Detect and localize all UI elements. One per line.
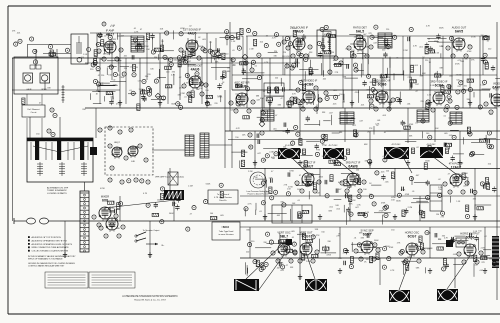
additional value annotations: [100, 28, 499, 272]
wire left IF drop 2: [111, 38, 113, 80]
resistor R101: [370, 256, 373, 263]
resistor R18: [137, 104, 140, 111]
svg-text:1.5K: 1.5K: [351, 200, 356, 202]
blob side resistor F: [346, 149, 349, 155]
resistor R19: [190, 78, 193, 85]
wire segment V4: [179, 58, 181, 100]
resistor R44: [485, 63, 488, 70]
svg-text:.047: .047: [300, 145, 304, 147]
resistor R29: [441, 86, 444, 93]
capacitor C11: [149, 88, 151, 92]
terminal E201: [343, 156, 347, 160]
svg-text:560K: 560K: [206, 183, 211, 185]
svg-text:220: 220: [386, 29, 389, 31]
svg-text:2.2M: 2.2M: [269, 152, 274, 154]
terminal E130: [376, 96, 380, 100]
capacitor C2: [217, 85, 221, 87]
terminal E107: [122, 72, 126, 76]
terminal E77: [92, 215, 96, 219]
svg-text:470K: 470K: [180, 28, 185, 30]
svg-text:2.2M: 2.2M: [249, 48, 254, 50]
capacitor C67: [445, 264, 449, 266]
terminal E93: [176, 102, 180, 106]
terminal E11: [291, 54, 295, 58]
svg-text:4.7K: 4.7K: [426, 25, 431, 27]
wire vert section bus: [240, 257, 500, 259]
speaker can 2: [40, 73, 50, 83]
capacitor C21: [346, 64, 348, 68]
wire picture IF bus: [240, 168, 500, 170]
capacitor C8: [150, 35, 154, 37]
svg-text:.047: .047: [355, 207, 359, 209]
resistor R113: [108, 201, 115, 204]
svg-text:220: 220: [246, 251, 249, 253]
svg-text:1.5K: 1.5K: [83, 54, 88, 56]
capacitor C31: [295, 59, 297, 63]
tuner pictorial caption: [47, 187, 69, 195]
terminal E147: [246, 29, 250, 33]
terminal E144: [462, 89, 466, 93]
resistor R42: [287, 102, 294, 105]
wire segment V14: [351, 58, 353, 108]
wire segment V8: [246, 36, 248, 108]
vacuum tube V20 6X8: [99, 195, 111, 221]
resistor R82: [358, 212, 365, 215]
wire IF strip drop 7: [362, 36, 364, 75]
terminal E150: [230, 36, 234, 40]
svg-text:330: 330: [107, 94, 110, 96]
terminal E72: [417, 259, 421, 263]
tuner interior terminals: [108, 144, 148, 170]
terminal E180: [288, 42, 292, 46]
CRT socket terminal strip: [80, 182, 89, 252]
wire segment V26: [434, 108, 436, 142]
capacitor C24: [318, 53, 322, 55]
resistor R76: [466, 205, 469, 212]
capacitor C14: [212, 55, 216, 57]
resistor R2: [178, 60, 181, 67]
ground G16: [319, 214, 321, 217]
terminal E148: [285, 36, 289, 40]
terminal E18: [468, 45, 472, 49]
ground G8: [429, 100, 431, 103]
svg-text:.047: .047: [257, 153, 261, 155]
terminal E172: [447, 84, 451, 88]
resistor R31: [425, 47, 428, 54]
terminal E233: [261, 201, 265, 205]
wire segment V34: [64, 221, 66, 258]
tuner output terminals: [98, 126, 133, 134]
coil can L32: [286, 239, 292, 245]
terminal E226: [363, 213, 367, 217]
svg-text:.005: .005: [291, 231, 295, 233]
svg-text:Howard W. Sams & Co., Inc. 195: Howard W. Sams & Co., Inc. 1957: [134, 298, 166, 301]
terminal E5: [179, 48, 183, 52]
resistor R103: [302, 233, 305, 240]
svg-text:560K: 560K: [407, 257, 412, 259]
resistor R57: [324, 134, 327, 141]
terminal E66: [376, 248, 380, 252]
wire segment V1: [119, 33, 121, 108]
wire segment V9: [269, 58, 271, 131]
capacitor C48: [283, 123, 285, 127]
capacitor C29: [302, 35, 306, 37]
svg-text:6CG7: 6CG7: [408, 235, 417, 239]
terminal E252: [311, 235, 315, 239]
terminal E124: [91, 63, 95, 67]
capacitor C27: [242, 70, 246, 72]
svg-text:1.5K: 1.5K: [329, 181, 334, 183]
wire left IF drop 3: [125, 58, 127, 104]
svg-text:.001: .001: [123, 56, 127, 58]
svg-text:6CB6: 6CB6: [305, 83, 314, 87]
terminal E185: [249, 145, 253, 149]
capacitor C5: [131, 55, 133, 59]
terminal E80: [110, 223, 114, 227]
terminal E197: [320, 139, 324, 143]
resistor R11: [94, 59, 97, 66]
svg-text:4.7K: 4.7K: [390, 270, 395, 272]
terminal E207: [321, 134, 325, 138]
wire IF strip drop 6: [342, 58, 344, 108]
resistor R88: [286, 249, 293, 252]
svg-text:.005: .005: [444, 133, 448, 135]
resistor R90: [437, 247, 444, 250]
peaking coil can L30: [446, 240, 453, 247]
resistor R26: [329, 35, 336, 38]
terminal E247: [400, 249, 404, 253]
wire IF strip drop 8: [382, 58, 384, 108]
terminal E47: [300, 189, 304, 193]
svg-text:2.2M: 2.2M: [180, 93, 185, 95]
wire IF strip drop 2: [261, 58, 263, 108]
note box: junction A: [208, 190, 238, 204]
wire IF strip drop 1: [242, 36, 244, 75]
resistor R13: [94, 50, 97, 57]
wire sync bus: [240, 226, 500, 228]
terminal E270: [65, 48, 69, 52]
terminal E63: [298, 259, 302, 263]
terminal E103: [183, 60, 187, 64]
wire antenna downlead: [12, 58, 14, 221]
ground G5: [299, 102, 301, 105]
terminal E111: [146, 87, 150, 91]
wire left IF drop 5: [167, 58, 169, 104]
speaker can 1: [23, 73, 33, 83]
terminal E81: [99, 226, 103, 230]
ground G19: [299, 274, 301, 277]
blob side resistor G: [411, 148, 414, 154]
terminal E48: [313, 189, 317, 193]
svg-text:2.2M: 2.2M: [244, 86, 249, 88]
terminal E114: [195, 72, 199, 76]
terminal E245: [383, 247, 387, 251]
terminal E92: [105, 44, 109, 48]
capacitor C43: [487, 139, 489, 143]
capacitor C45: [298, 149, 300, 153]
filament choke winding: [62, 85, 65, 103]
terminal E249: [442, 267, 446, 271]
svg-text:1.5K: 1.5K: [430, 85, 435, 87]
capacitor C23: [448, 85, 450, 89]
waveform leader line 2: [258, 255, 284, 291]
svg-text:2.2M: 2.2M: [480, 85, 485, 87]
svg-text:470K: 470K: [101, 209, 106, 211]
wire segment V49: [59, 117, 61, 138]
vacuum tube V13 6AW8: [346, 161, 361, 187]
resistor R14: [147, 33, 150, 40]
capacitor C40: [256, 134, 258, 138]
svg-text:ADJUSTED OPERATING LEVEL SOCKE: ADJUSTED OPERATING LEVEL SOCKETS: [32, 243, 73, 246]
svg-text:4.7K: 4.7K: [171, 74, 176, 76]
terminal E153: [393, 35, 397, 39]
terminal E155: [326, 33, 330, 37]
svg-text:470K: 470K: [294, 62, 299, 64]
svg-text:.02: .02: [198, 37, 201, 39]
converter plate coil box: [200, 133, 209, 158]
terminal E163: [374, 25, 378, 29]
resistor R104: [350, 257, 353, 264]
svg-text:2.2M: 2.2M: [322, 145, 327, 147]
resistor R37: [428, 50, 435, 53]
resistor R110: [152, 213, 159, 216]
terminal E17: [446, 46, 450, 50]
terminal E143: [468, 88, 472, 92]
svg-text:GROUND IN CHASSIS PHOTOS LOCAT: GROUND IN CHASSIS PHOTOS LOCATED IN PAGE…: [28, 262, 75, 265]
terminal E113: [93, 79, 97, 83]
svg-text:42.25 MC: 42.25 MC: [391, 144, 401, 146]
speaker labels: [27, 88, 48, 91]
terminal E235: [282, 203, 286, 207]
terminal E68: [372, 257, 376, 261]
svg-text:45.75 MC: 45.75 MC: [328, 145, 338, 147]
terminal E151: [257, 53, 261, 57]
resistor R86: [477, 207, 484, 210]
wire IF lower bus: [85, 107, 497, 109]
terminal E195: [265, 154, 269, 158]
terminal E82: [121, 225, 125, 229]
resistor R55: [467, 127, 470, 134]
terminal E211: [375, 171, 379, 175]
wire segment V37: [249, 227, 251, 258]
resistor R63: [479, 139, 486, 142]
IF AMP test point: [102, 22, 106, 26]
terminal E257: [265, 232, 269, 236]
resistor R15: [136, 46, 143, 49]
terminal E274: [192, 206, 196, 210]
terminal E186: [471, 151, 475, 155]
svg-text:Tube Type Used: Tube Type Used: [219, 231, 234, 233]
resistor R114: [210, 216, 217, 219]
capacitor C54: [270, 178, 272, 182]
terminal E179: [483, 53, 487, 57]
terminal E28: [247, 109, 251, 113]
damper cathode component X1: [168, 172, 178, 185]
svg-text:220: 220: [232, 65, 235, 67]
vacuum tube V7 6AU8: [234, 81, 249, 107]
terminal E181: [282, 40, 286, 44]
svg-text:6X8: 6X8: [109, 210, 115, 214]
terminal E96: [208, 49, 212, 53]
terminal E232: [261, 181, 265, 185]
capacitor C68: [278, 262, 280, 266]
tuner osc tube V23: [128, 146, 138, 163]
wire antenna feed bus: [60, 220, 500, 222]
wire segment V38: [299, 227, 301, 280]
sound IF terminals: [244, 61, 358, 72]
svg-text:470K: 470K: [391, 197, 396, 199]
wire segment V42: [454, 258, 456, 288]
terminal E64: [311, 259, 315, 263]
terminal E62: [315, 250, 319, 254]
resistor R102: [312, 254, 319, 257]
terminal E275: [119, 202, 123, 206]
wire segment V20: [479, 36, 481, 108]
terminal E177: [483, 60, 487, 64]
svg-text:2.2M: 2.2M: [188, 186, 193, 188]
svg-text:SPECS OF STANDARD % TOLERANCE: SPECS OF STANDARD % TOLERANCE: [28, 258, 63, 261]
resistor R105: [443, 259, 446, 266]
terminal E29: [296, 99, 300, 103]
IF coupling coil box B: [340, 112, 354, 124]
terminal E45: [295, 181, 299, 185]
terminal E52: [358, 189, 362, 193]
terminal E237: [465, 214, 469, 218]
vacuum tube V14 12AU7: [449, 162, 464, 188]
capacitor C22: [282, 87, 284, 91]
wire AGC bus upper: [85, 62, 300, 64]
resistor R98: [406, 264, 409, 271]
wire segment V22: [299, 108, 301, 143]
svg-text:4.7K: 4.7K: [184, 83, 189, 85]
capacitor C41: [451, 157, 455, 159]
svg-text:.01: .01: [287, 258, 290, 260]
ground G9: [469, 100, 471, 103]
sound take-off coil box: [131, 36, 144, 52]
svg-text:in some Versions: in some Versions: [218, 234, 233, 236]
terminal E187: [428, 135, 432, 139]
terminal E73: [457, 252, 461, 256]
terminal E174: [324, 25, 328, 29]
terminal E9: [286, 46, 290, 50]
svg-text:100: 100: [302, 213, 305, 215]
terminal E60: [289, 259, 293, 263]
schematic title: [122, 295, 178, 301]
CRT socket view (dashed): [246, 172, 269, 196]
waveform leader line 10: [105, 200, 176, 208]
terminal E264: [382, 265, 386, 269]
terminal E79: [97, 223, 101, 227]
terminal E228: [480, 182, 484, 186]
capacitor C52: [381, 176, 385, 178]
terminal E67: [359, 257, 363, 261]
wire segment V50: [95, 108, 97, 138]
terminal E277: [204, 200, 208, 204]
wire sound section bus: [232, 74, 497, 76]
vacuum tube V6 4AU6: [187, 64, 203, 90]
capacitor C49: [401, 121, 405, 123]
terminal E229: [384, 213, 388, 217]
svg-text:470K: 470K: [401, 190, 406, 192]
svg-text:LOCATED IN PARTS: LOCATED IN PARTS: [47, 192, 67, 195]
resistor R100: [420, 243, 423, 250]
width control terminal box L31: [456, 238, 466, 247]
wire left IF drop 8: [215, 38, 217, 80]
svg-text:150: 150: [108, 74, 111, 76]
svg-text:470K: 470K: [455, 64, 460, 66]
svg-text:150: 150: [263, 160, 266, 162]
ground G6: [351, 100, 353, 103]
ground G4: [269, 100, 271, 103]
terminal E261: [264, 262, 268, 266]
terminal E8: [197, 56, 201, 60]
contrast block box: [417, 110, 429, 122]
audio takeoff transformer T1: [71, 34, 91, 64]
terminal E216: [325, 194, 329, 198]
resistor R16: [165, 85, 172, 88]
resistor R79: [485, 178, 488, 185]
resistor R94: [419, 236, 422, 243]
terminal E78: [114, 214, 118, 218]
svg-text:2.2M: 2.2M: [217, 95, 222, 97]
capacitor C81: [154, 203, 158, 205]
capacitor C50: [315, 145, 319, 147]
terminal E212: [354, 178, 358, 182]
terminal E165: [459, 81, 463, 85]
resistor R69: [404, 126, 411, 129]
svg-text:220: 220: [101, 75, 104, 77]
terminal E97: [108, 35, 112, 39]
resistor R25: [293, 30, 296, 37]
resistor R54: [266, 98, 273, 101]
terminal E136: [292, 63, 296, 67]
antenna transmission line input: [14, 218, 60, 224]
video IF interstage box: [264, 83, 284, 108]
terminal E200: [368, 159, 372, 163]
svg-text:.005: .005: [465, 208, 469, 210]
resistor R5: [106, 92, 113, 95]
terminal E33: [369, 99, 373, 103]
svg-text:100: 100: [366, 259, 369, 261]
capacitor C79: [176, 198, 180, 200]
wire segment V18: [451, 36, 453, 90]
svg-text:150: 150: [436, 214, 439, 216]
resistor R47: [483, 37, 490, 40]
terminal E106: [199, 82, 203, 86]
svg-text:560K: 560K: [425, 161, 430, 163]
terminal E166: [299, 53, 303, 57]
svg-text:560K: 560K: [374, 240, 379, 242]
IF input transformer winding box: [185, 135, 194, 156]
svg-text:560K: 560K: [396, 201, 401, 203]
svg-text:470K: 470K: [349, 174, 354, 176]
terminal E238: [298, 214, 302, 218]
vert mult section box: [430, 185, 442, 211]
terminal E269: [33, 49, 37, 53]
alignment point D4: [259, 121, 265, 127]
capacitor C32: [409, 83, 411, 87]
alignment point D1: [215, 51, 221, 57]
video peaking box: [261, 110, 274, 121]
terminal E259: [261, 266, 265, 270]
resistor R83: [462, 173, 465, 180]
svg-text:SPKR: SPKR: [41, 89, 47, 91]
waveform leader line 4: [399, 255, 412, 290]
terminal E51: [345, 189, 349, 193]
svg-text:220: 220: [366, 90, 369, 92]
capacitor C20: [481, 58, 485, 60]
terminal E160: [450, 36, 454, 40]
